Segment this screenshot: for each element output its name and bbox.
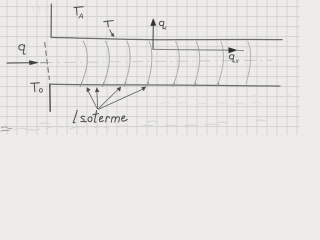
q arrow faint continuation: [41, 62, 49, 64]
centerline (axis, faint dash-dot): [42, 60, 272, 63]
svg-text:A: A: [78, 11, 84, 20]
bleed-through squiggles bottom: [14, 120, 265, 130]
faint smudges top-left: [31, 5, 46, 13]
q_r arrow (radial flux, up): [152, 25, 154, 50]
top wall vertical line: [50, 4, 52, 37]
q arrow (left heat input): [7, 62, 31, 64]
label Isoterme (handwritten): [73, 110, 127, 123]
isotherm arc 1: [80, 41, 87, 86]
q_x arrow (axial flux, right): [153, 48, 229, 51]
svg-text:x: x: [234, 58, 239, 65]
T_A label: [74, 6, 83, 9]
isotherm arc 6: [194, 42, 199, 85]
isotherm arc 3: [124, 41, 130, 85]
isotherm arc 5: [173, 42, 179, 87]
label q_r q (handwritten): [159, 21, 164, 28]
dashed wall line: [45, 43, 50, 80]
isoterme fan arrow 2: [96, 92, 99, 109]
bleed mark far bottom-left: [1, 127, 12, 131]
bottom wall vertical line: [49, 84, 51, 111]
T label (surface temp) with small arrow: [104, 21, 114, 22]
paper background: [0, 0, 300, 135]
isoterme fan arrow 1: [88, 91, 97, 109]
isotherm arc 8: [246, 42, 251, 84]
bottom rod line: [50, 84, 280, 86]
faint bleed row right half: [160, 96, 292, 105]
text labels: [78, 11, 240, 65]
label q_x q (handwritten): [229, 55, 234, 62]
isoterme fan arrow 4: [99, 89, 143, 109]
isoterme fan arrow 3: [98, 90, 118, 109]
isotherm arc 4: [147, 41, 152, 85]
T_0 label: [31, 82, 40, 85]
label q (left, handwritten): [19, 45, 25, 54]
isotherm bottom tails emphasis: [80, 82, 219, 86]
isotherm arc 2: [103, 41, 110, 86]
isotherm arc 7: [218, 42, 224, 85]
top rod line: [51, 37, 282, 39]
